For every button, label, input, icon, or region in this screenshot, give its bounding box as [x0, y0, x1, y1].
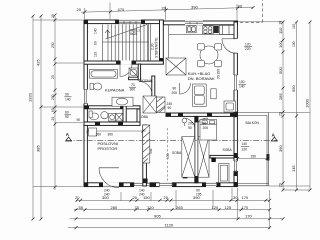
svg-text:390: 390 [278, 145, 283, 152]
bottom row4 [68, 227, 270, 229]
window in right wall (y161-171) [233, 161, 238, 171]
svg-text:348: 348 [149, 148, 153, 154]
poslovni wc corner [89, 128, 97, 136]
bedroom divider wall [195, 116, 198, 182]
hatched wall block corridor bottom [157, 97, 166, 113]
svg-text:150: 150 [143, 195, 150, 200]
svg-text:425: 425 [36, 59, 41, 66]
bottom extension lines [121, 188, 270, 229]
svg-text:20: 20 [279, 21, 283, 25]
wall jamb dark blocks top [84, 20, 88, 24]
svg-text:390: 390 [193, 195, 200, 200]
svg-text:20: 20 [279, 183, 283, 187]
counter right of fridge [219, 25, 233, 34]
svg-text:285: 285 [278, 93, 283, 100]
kitchen counter line [169, 34, 234, 36]
svg-text:205: 205 [188, 121, 194, 125]
svg-text:100: 100 [292, 41, 296, 47]
svg-text:140: 140 [65, 97, 71, 101]
svg-text:PROSTOR: PROSTOR [98, 146, 118, 151]
svg-text:220: 220 [242, 147, 248, 151]
stove [203, 26, 214, 34]
svg-text:110: 110 [94, 52, 98, 57]
svg-text:125: 125 [225, 205, 232, 210]
wall right of bathroom [138, 64, 140, 80]
svg-text:HODNIK: HODNIK [140, 79, 154, 83]
stair direction arrow [105, 25, 147, 40]
svg-text:145: 145 [291, 165, 296, 172]
top outer wall (stair + living) [84, 20, 163, 24]
right chain x296 [296, 22, 298, 190]
svg-text:60: 60 [94, 41, 98, 45]
soba2 wardrobe [219, 164, 229, 183]
wc toilet upper [90, 84, 94, 90]
shower room wall below shower [129, 77, 141, 80]
svg-text:60: 60 [65, 110, 69, 114]
coffee table [211, 89, 216, 99]
svg-text:1000: 1000 [305, 98, 310, 108]
svg-text:90: 90 [203, 121, 207, 125]
svg-text:20: 20 [133, 195, 138, 200]
svg-text:DN. BORAVAK: DN. BORAVAK [188, 76, 215, 81]
svg-text:905: 905 [154, 214, 161, 219]
hall bottom wall (living/bedrooms divider) [166, 113, 238, 116]
soba2 bed [200, 120, 217, 141]
door arc corridor below stairs [120, 64, 132, 76]
svg-text:200: 200 [51, 94, 55, 100]
svg-text:100: 100 [278, 41, 283, 48]
svg-text:90: 90 [188, 126, 192, 130]
stairwell right wall [160, 20, 164, 64]
svg-text:BALKON: BALKON [246, 121, 260, 125]
svg-text:140: 140 [94, 28, 98, 34]
svg-text:8x25: 8x25 [130, 32, 137, 36]
svg-text:150: 150 [251, 155, 257, 159]
svg-text:60: 60 [51, 108, 55, 112]
svg-text:100: 100 [239, 80, 245, 84]
window in bottom wall (x134-149.5) [134, 182, 150, 187]
svg-text:1320: 1320 [28, 92, 33, 102]
armchair [224, 101, 236, 112]
kitchen sink unit [187, 26, 197, 33]
dark column at wall [211, 157, 215, 162]
stair treads [103, 24, 149, 60]
bottom row3 [70, 218, 284, 220]
svg-text:20: 20 [162, 5, 167, 10]
right outer wall [234, 22, 237, 185]
svg-text:20: 20 [51, 117, 55, 121]
door gap bottom wall (poslovni entrance) [103, 182, 119, 187]
svg-text:300: 300 [102, 195, 109, 200]
wc bottom wall / poslovni top wall [84, 122, 140, 125]
svg-text:280: 280 [111, 205, 118, 210]
soba1+soba2 wardrobes X [182, 137, 195, 178]
svg-text:385: 385 [36, 145, 41, 152]
poslovni right wall [143, 125, 147, 186]
svg-text:220: 220 [245, 47, 251, 51]
right chain x283 [282, 22, 284, 190]
svg-text:265: 265 [176, 205, 183, 210]
bottom outer wall [84, 183, 237, 187]
window in bottom wall (x206-216) [206, 182, 216, 187]
svg-text:SOBA: SOBA [223, 148, 233, 152]
svg-text:550: 550 [291, 85, 296, 92]
left chain x33 [32, 16, 34, 219]
dashed extension in soba1 [167, 128, 169, 182]
wc right wall [123, 100, 126, 125]
svg-text:390: 390 [191, 4, 198, 9]
svg-text:500: 500 [278, 67, 283, 74]
stair shaft inner line [148, 24, 150, 61]
corner closet with X [166, 58, 186, 75]
svg-text:300: 300 [108, 132, 114, 136]
svg-text:80: 80 [173, 87, 177, 91]
svg-text:73: 73 [131, 83, 135, 87]
window in top wall (stairs) [119, 20, 141, 24]
svg-text:2,30: 2,30 [151, 43, 155, 50]
internal dim line balcony [236, 157, 269, 160]
dining table [200, 46, 218, 64]
door corridor to living [139, 82, 152, 95]
svg-text:20: 20 [77, 7, 82, 12]
svg-text:90: 90 [77, 118, 81, 122]
shower cabin [129, 68, 138, 77]
svg-text:30: 30 [233, 195, 238, 200]
svg-text:360: 360 [96, 132, 102, 136]
svg-text:KUPAONA: KUPAONA [105, 88, 125, 93]
corridor closet [143, 96, 157, 113]
svg-text:90 205: 90 205 [216, 69, 220, 79]
svg-text:20: 20 [51, 14, 55, 18]
top dim line (slanted scan) [81, 7, 253, 12]
svg-text:140: 140 [239, 85, 245, 89]
svg-text:55: 55 [79, 205, 84, 210]
section line A-A [66, 139, 278, 141]
roof dashed outline top right [240, 0, 263, 22]
svg-text:90: 90 [65, 115, 69, 119]
svg-text:OBA: OBA [141, 115, 149, 119]
internal dim line poslovni [87, 130, 147, 133]
wc toilet lower [89, 113, 98, 120]
window in left wall (bathroom) [83, 90, 88, 104]
left chain x41 [40, 16, 42, 219]
svg-text:130: 130 [166, 153, 170, 159]
svg-text:300: 300 [130, 88, 136, 92]
washbasin counter [112, 97, 133, 106]
right chain x310 [309, 22, 311, 190]
entry door arc living [180, 83, 191, 94]
svg-text:140: 140 [242, 142, 248, 146]
top extension lines [85, 3, 238, 22]
balcony railing dark block [266, 154, 269, 161]
svg-text:120: 120 [147, 205, 154, 210]
svg-text:90: 90 [168, 106, 172, 110]
bottom row1 [76, 199, 270, 201]
svg-text:110: 110 [278, 27, 283, 34]
window in bottom wall (x159.5-172) [160, 182, 173, 187]
jamb at balcony/wall joint [234, 112, 238, 118]
svg-text:120: 120 [212, 205, 219, 210]
fridge dark [214, 26, 219, 33]
svg-text:75: 75 [135, 205, 140, 210]
svg-text:1120: 1120 [165, 222, 174, 227]
stair bottom wall [84, 61, 163, 64]
right extension connectors [238, 22, 310, 190]
corridor/living wall piece [152, 76, 155, 98]
left chain x55 [54, 16, 56, 190]
svg-text:20: 20 [164, 195, 169, 200]
svg-text:470: 470 [118, 7, 125, 12]
svg-text:20: 20 [51, 75, 55, 79]
poslovni entrance door arc [99, 167, 119, 169]
left outer wall [84, 20, 87, 187]
window in right wall (y75-90) [233, 75, 238, 90]
hatched chimney block [143, 125, 150, 163]
bathroom bottom wall [84, 106, 140, 109]
double door arcs to bedrooms [183, 118, 195, 130]
svg-text:170: 170 [242, 195, 249, 200]
bottom row2 [74, 209, 270, 211]
svg-text:170: 170 [245, 214, 252, 219]
wall right of wc [137, 109, 140, 125]
svg-text:90: 90 [65, 92, 69, 96]
svg-text:110: 110 [292, 24, 296, 29]
svg-text:SOBA: SOBA [172, 151, 182, 155]
window in top wall (kitchen) [185, 21, 203, 26]
balcony outline [238, 112, 269, 186]
washing machines [109, 113, 116, 121]
bottom wall jambs [84, 183, 88, 187]
svg-text:20: 20 [238, 3, 243, 8]
left extension connectors [33, 20, 83, 186]
bathtub [90, 70, 118, 79]
svg-text:230: 230 [51, 42, 55, 48]
svg-text:205: 205 [203, 126, 209, 130]
svg-text:20: 20 [75, 195, 80, 200]
svg-text:120: 120 [245, 43, 251, 47]
door gap in right wall (y38-53) [233, 39, 238, 54]
soba2 lower wall [210, 155, 234, 158]
door arc right wall top room [222, 39, 237, 54]
pedestal sink lower [101, 112, 108, 119]
svg-text:205: 205 [172, 91, 178, 95]
sofa [193, 84, 207, 106]
svg-text:20: 20 [234, 155, 238, 159]
svg-text:20: 20 [279, 112, 283, 116]
svg-text:170: 170 [242, 205, 249, 210]
